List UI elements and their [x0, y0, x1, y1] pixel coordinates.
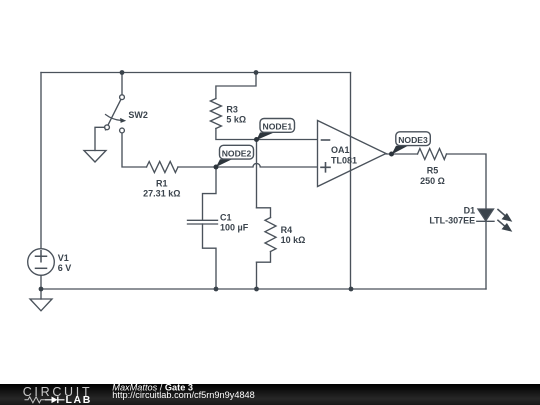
svg-text:C1: C1: [220, 212, 232, 222]
op-amp OA1 labels: [331, 145, 357, 166]
wire R5 to LED branch corner: [447, 154, 487, 289]
svg-text:R4: R4: [281, 225, 293, 235]
svg-text:LAB: LAB: [66, 394, 92, 405]
node NODE3: [392, 132, 431, 155]
junction dot bottom rail / R4: [254, 287, 259, 292]
voltage source V1 labels: [58, 253, 72, 273]
svg-text:NODE1: NODE1: [262, 122, 292, 132]
wire NODE1 to op-amp - input: [257, 139, 318, 141]
svg-text:6 V: 6 V: [58, 263, 72, 273]
wire R1 to NODE2 junction: [178, 166, 216, 168]
op-amp OA1: [318, 121, 387, 187]
voltage source V1: [28, 249, 55, 289]
switch SW2: [105, 73, 127, 133]
junction dot bottom rail / C1: [214, 287, 219, 292]
svg-text:250 Ω: 250 Ω: [420, 176, 445, 186]
junction dot NODE3 / op-amp output: [389, 152, 394, 157]
svg-text:http://circuitlab.com/cf5rn9n9: http://circuitlab.com/cf5rn9n9y4848: [112, 390, 254, 400]
svg-text:OA1: OA1: [331, 145, 350, 155]
svg-text:R1: R1: [156, 179, 168, 189]
svg-text:D1: D1: [464, 206, 476, 216]
wire NODE1 down to R4: [256, 140, 258, 208]
LED D1: [477, 209, 513, 232]
wire left rail: [40, 73, 42, 249]
wire NODE2 to op-amp + input (with hop): [216, 163, 318, 167]
junction dot bottom rail / op-amp supply: [349, 287, 354, 292]
svg-text:10 kΩ: 10 kΩ: [281, 235, 306, 245]
svg-text:5 kΩ: 5 kΩ: [226, 115, 246, 125]
resistor R3: [210, 73, 256, 140]
footer credit text: [112, 382, 254, 399]
ground (switch): [84, 127, 106, 162]
wire top rail: [41, 72, 351, 74]
wire op-amp output to R5: [386, 153, 418, 155]
svg-text:NODE2: NODE2: [222, 148, 252, 158]
svg-text:100 µF: 100 µF: [220, 223, 249, 233]
svg-text:R3: R3: [226, 105, 238, 115]
junction dot top rail / R3: [254, 70, 259, 75]
LED D1 labels: [429, 206, 475, 226]
footer bar: [0, 384, 540, 405]
svg-text:NODE3: NODE3: [398, 135, 428, 145]
wire R4 bottom to bottom rail: [256, 262, 258, 289]
wire bottom rail: [41, 288, 486, 290]
svg-text:27.31 kΩ: 27.31 kΩ: [143, 189, 180, 199]
CircuitLab logo: [23, 384, 93, 405]
capacitor C1: [188, 167, 218, 289]
resistor R5: [418, 149, 447, 160]
svg-text:R5: R5: [427, 166, 439, 176]
junction dot NODE2: [214, 165, 219, 170]
svg-text:SW2: SW2: [128, 110, 148, 120]
wire op-amp supply vertical: [350, 73, 352, 290]
resistor R4: [257, 208, 277, 262]
svg-text:LTL-307EE: LTL-307EE: [429, 216, 475, 226]
resistor R1: [147, 162, 179, 173]
junction dot top rail / switch: [120, 70, 125, 75]
node NODE1: [257, 119, 295, 141]
node NODE2: [216, 145, 254, 167]
svg-text:TL081: TL081: [331, 156, 357, 166]
ground (V1): [30, 289, 52, 311]
wire switch throw to R1: [122, 133, 147, 167]
junction dot NODE1: [254, 137, 259, 142]
svg-text:V1: V1: [58, 253, 69, 263]
junction dot bottom rail / V1: [39, 287, 44, 292]
